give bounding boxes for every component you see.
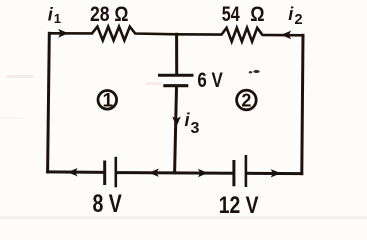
svg-text:6 V: 6 V — [197, 68, 223, 92]
svg-text:12 V: 12 V — [219, 192, 259, 219]
svg-text:8 V: 8 V — [93, 190, 123, 218]
svg-text:Ω: Ω — [250, 2, 264, 26]
svg-text:1: 1 — [103, 91, 114, 112]
svg-text:1: 1 — [54, 11, 61, 26]
svg-text:28 Ω: 28 Ω — [90, 3, 129, 26]
svg-text:2: 2 — [295, 12, 303, 28]
svg-text:3: 3 — [191, 120, 200, 137]
svg-text:2: 2 — [241, 91, 251, 111]
svg-text:54: 54 — [222, 3, 240, 26]
